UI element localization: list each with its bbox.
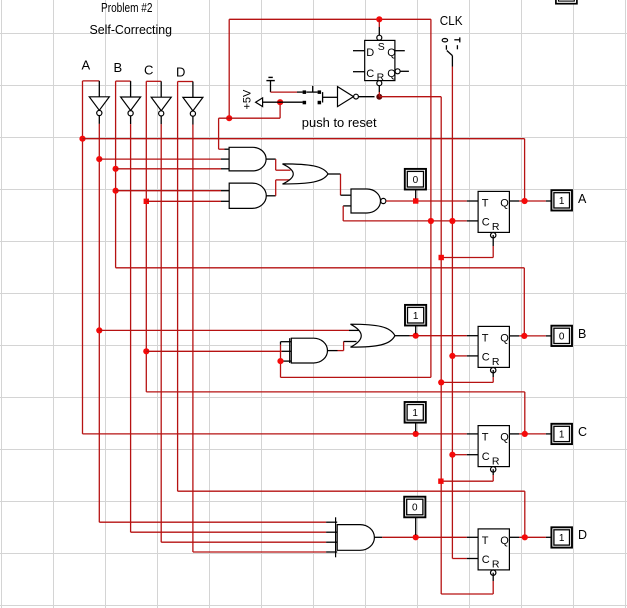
- svg-text:push to reset: push to reset: [302, 115, 377, 130]
- svg-text:+5V: +5V: [242, 89, 254, 110]
- wire FF2 reset link: [441, 381, 493, 383]
- node junction FF4 Q: [522, 534, 528, 540]
- wire AND1 input3 from B: [116, 168, 221, 170]
- pin inverter U_B input stub: [130, 81, 132, 97]
- or-gate OR2: [351, 324, 395, 347]
- pin inverter U_A input stub: [98, 81, 100, 97]
- wire +5V bus left drop: [228, 19, 230, 118]
- svg-text:D: D: [578, 528, 587, 542]
- wire FF1 reset link: [441, 257, 493, 259]
- pin inverter U_D input stub: [192, 82, 194, 98]
- pin FF4 T stub: [467, 536, 478, 538]
- svg-text:T: T: [482, 432, 489, 444]
- wire FF1 Q output: [509, 200, 519, 202]
- pin inverter U_C input stub: [160, 81, 162, 97]
- node reset junction at DFF R: [376, 94, 382, 100]
- wire T_D line: [374, 536, 382, 538]
- node junction Q_A bus tap: [79, 136, 85, 142]
- node junction C to AND2: [144, 199, 149, 204]
- svg-text:A: A: [82, 58, 91, 73]
- node junction T_D probe tap: [413, 534, 419, 540]
- wire T_A line: [386, 200, 467, 202]
- clock switch SW2: [442, 39, 447, 42]
- wire Q_C bus drop to FF3 Q: [524, 392, 526, 434]
- indicator output D value 1: [551, 527, 572, 547]
- wire FF1 R pin: [492, 235, 494, 246]
- pin output indicator D stub: [546, 536, 552, 538]
- pin inverter U_C output stub: [160, 116, 162, 124]
- pin D stub U6: [353, 50, 365, 52]
- inverter U_A (makes not-A): [89, 97, 109, 111]
- svg-text:C: C: [482, 352, 490, 364]
- svg-text:R: R: [492, 559, 500, 571]
- indicator probe (T_B) value 1: [405, 305, 426, 326]
- or-gate OR1: [283, 164, 329, 184]
- svg-text:C: C: [482, 217, 490, 229]
- and-gate AND4: [337, 525, 374, 551]
- wire AND1 input2 from notA: [99, 158, 221, 160]
- wire AND3 input3 stub: [281, 360, 292, 362]
- wire AND4 input1 from notA: [99, 521, 326, 523]
- indicator output B value 0: [551, 326, 572, 346]
- svg-text:Q: Q: [500, 333, 509, 345]
- svg-text:Q: Q: [500, 432, 509, 444]
- indicator probe (T_D) value 0: [404, 497, 425, 518]
- pin Q stub U6: [395, 50, 405, 52]
- wire U5 output (black): [358, 96, 374, 98]
- wire +5V tie bus row B: [281, 376, 431, 378]
- svg-text:T: T: [482, 333, 489, 345]
- wire reset line to right: [379, 96, 441, 98]
- node junction notA to AND1: [96, 156, 102, 162]
- nand-gate NAND1: [351, 189, 381, 213]
- and-gate AND1: [229, 147, 266, 171]
- push button SW1 lever: [306, 91, 317, 93]
- svg-text:Q: Q: [387, 47, 396, 59]
- wire D column top corner: [178, 81, 193, 83]
- wire OR1 output jog: [328, 173, 341, 175]
- svg-text:0: 0: [559, 331, 565, 342]
- wire FF4 R pin: [492, 573, 494, 581]
- wire column D (Q_D net): [177, 82, 179, 492]
- pin Qbar stub U6: [400, 70, 409, 72]
- wire T_B line: [395, 335, 410, 337]
- T flip-flop FF3 (bit C): [478, 426, 509, 467]
- wire column notB: [130, 124, 132, 532]
- node junction T_A probe tap: [413, 198, 418, 203]
- wire column notD: [192, 125, 194, 553]
- wire FF2 Q output: [509, 335, 519, 337]
- wire Q_C feedback bus: [146, 391, 525, 393]
- node junction T_B probe tap: [413, 333, 419, 339]
- node junction at +5V left corner: [226, 115, 232, 121]
- T flip-flop FF4 (bit D): [478, 529, 509, 570]
- and-gate AND2: [229, 183, 266, 208]
- node junction AND3 input3: [277, 358, 283, 364]
- pin C stub U6: [353, 71, 365, 73]
- node junction B to AND2: [113, 188, 119, 194]
- pin output indicator A stub: [546, 200, 552, 202]
- svg-text:Q: Q: [500, 198, 509, 210]
- wire FF3 reset link: [441, 480, 493, 482]
- wire +5V arrow to button (black): [263, 101, 303, 103]
- svg-text:1: 1: [413, 311, 419, 322]
- wire AND3 input1 stub: [281, 341, 292, 343]
- push button SW1 pole: [322, 92, 324, 102]
- pin Qbar bubble U6: [395, 69, 400, 74]
- svg-text:D: D: [366, 47, 374, 59]
- svg-text:CLK: CLK: [440, 13, 463, 28]
- wire Q_B feedback bus: [116, 267, 525, 269]
- wire AND3 tie vertical: [280, 342, 282, 345]
- wire FF2 R pin: [492, 370, 494, 377]
- svg-text:Self-Correcting: Self-Correcting: [90, 22, 173, 37]
- wire +5V bus right drop: [430, 19, 432, 377]
- node junction CLK on C_B: [449, 353, 455, 359]
- svg-text:Problem #2: Problem #2: [101, 0, 153, 15]
- wire AND2 input2 from C: [146, 200, 221, 202]
- D flip-flop U6 body: [365, 40, 395, 80]
- wire B column top corner: [116, 80, 131, 82]
- svg-text:C: C: [482, 451, 490, 463]
- svg-text:R: R: [492, 221, 500, 233]
- svg-text:R: R: [492, 455, 500, 467]
- wire AND4 input4 from notD: [193, 551, 326, 553]
- inverter U5 (reset driver): [338, 87, 354, 107]
- wire C column top corner: [146, 80, 161, 82]
- wire AND3 output jog: [328, 350, 338, 352]
- node junction FF1 Q: [522, 198, 528, 204]
- wire FF4 Q output: [509, 536, 519, 538]
- wire probe stub to T_D: [415, 517, 417, 535]
- wire column C (Q_C net): [145, 81, 147, 392]
- wire C_A clock line: [343, 220, 467, 222]
- node junction on +5V feed: [277, 99, 283, 105]
- node junction FF3 Q: [522, 431, 528, 437]
- svg-text:Q: Q: [500, 535, 509, 547]
- wire C_B clock stub: [452, 355, 466, 357]
- svg-text:R: R: [492, 356, 500, 368]
- inverter U_B (makes not-B): [121, 97, 141, 111]
- node junction reset rail FF3: [438, 479, 443, 484]
- wire OR2 input1 from notA: [99, 329, 349, 331]
- inverter U_C (makes not-C): [151, 97, 171, 111]
- svg-text:C: C: [482, 554, 490, 566]
- ground symbol: [266, 80, 274, 82]
- node junction S pin on +5V bus: [376, 16, 382, 22]
- D flip-flop U6 R bubble: [377, 81, 382, 86]
- node junction FF2 Q: [521, 333, 527, 339]
- pin output indicator B stub: [546, 335, 552, 337]
- svg-text:D: D: [176, 65, 185, 80]
- pin inverter U_B output stub: [130, 116, 132, 124]
- wire AND1 output jog: [266, 158, 276, 160]
- wire AND1 pin1 drop: [218, 118, 220, 149]
- svg-text:1: 1: [559, 430, 565, 441]
- wire probe stub to T_B: [415, 326, 417, 334]
- wire AND3 input2 from C: [146, 350, 282, 352]
- wire NAND1 input2 jog: [343, 205, 351, 207]
- wire T_C line from Q_A: [83, 433, 467, 435]
- node junction T_C probe tap: [413, 431, 419, 437]
- wire AND1 pin1 feed: [219, 148, 225, 150]
- svg-text:1: 1: [559, 196, 565, 207]
- svg-text:0: 0: [413, 175, 419, 186]
- indicator probe (T_C) value 1: [405, 402, 426, 423]
- D flip-flop U6 S bubble: [377, 35, 382, 40]
- node junction CLK on C_C: [449, 452, 455, 458]
- svg-text:T: T: [482, 535, 489, 547]
- svg-text:C: C: [366, 68, 374, 80]
- pin output indicator C stub: [546, 433, 552, 435]
- pin FF2 T stub: [467, 335, 478, 337]
- svg-text:A: A: [578, 192, 587, 206]
- wire column A (Q_A net): [82, 81, 84, 434]
- wire column notC: [160, 124, 162, 542]
- indicator probe (T_A) value 0: [405, 169, 426, 190]
- pin inverter U_D output stub: [192, 116, 194, 124]
- svg-text:C: C: [578, 425, 587, 439]
- wire Q_B bus drop to FF2 Q: [523, 268, 525, 336]
- wire branch up to +5V rail: [279, 102, 281, 118]
- node junction C to AND3: [143, 348, 149, 354]
- wire column B (Q_B net): [115, 81, 117, 268]
- node junction reset rail FF1: [439, 255, 444, 260]
- wire Q_A feedback bus: [83, 138, 525, 140]
- node junction notA to OR2: [96, 327, 102, 333]
- node junction B to AND1: [113, 166, 119, 172]
- svg-text:0: 0: [412, 503, 418, 514]
- wire +5V top bus: [229, 18, 431, 20]
- wire column notA: [98, 124, 100, 522]
- wire probe stub to T_A: [415, 190, 417, 199]
- T flip-flop FF2 (bit B): [478, 326, 509, 367]
- wire AND4 input2 from notB: [131, 531, 327, 533]
- node junction CLK on C_A: [449, 218, 455, 224]
- wire FF3 R pin: [492, 469, 494, 475]
- power +5V arrow symbol: [256, 98, 263, 107]
- wire AND2 output jog: [266, 195, 275, 197]
- pin FF1 T stub: [467, 200, 478, 202]
- inverter U_D (makes not-D): [183, 97, 203, 111]
- svg-text:1: 1: [412, 408, 418, 419]
- pin inverter U_A output stub: [98, 116, 100, 124]
- svg-text:C: C: [144, 63, 153, 78]
- wire Q_D feedback bus: [178, 490, 525, 492]
- nand-gate NAND1 bubble: [381, 198, 386, 203]
- wire S pin: [378, 19, 380, 27]
- node junction +5V drop on C_A: [428, 218, 434, 224]
- wire C_C clock stub: [452, 454, 466, 456]
- pin FF1 C stub: [467, 220, 478, 222]
- wire FF3 Q output: [509, 433, 519, 435]
- svg-text:T: T: [482, 198, 489, 210]
- wire Q_D bus drop to FF4 Q: [524, 491, 526, 537]
- wire FF4 reset link: [441, 593, 493, 595]
- node junction reset rail FF2: [438, 379, 444, 385]
- wire Q_A bus drop to FF1 Q: [524, 139, 526, 201]
- T flip-flop FF1 (bit A): [478, 191, 509, 232]
- wire +5V to button branch: [219, 117, 281, 119]
- wire reset vertical rail: [440, 97, 442, 594]
- wire C_D clock corner: [452, 558, 466, 560]
- wire probe stub to T_C: [415, 423, 417, 432]
- svg-text:B: B: [114, 60, 123, 75]
- svg-text:Q: Q: [387, 68, 396, 80]
- pin FF3 T stub: [467, 433, 478, 435]
- indicator output A value 1: [551, 190, 572, 210]
- svg-text:B: B: [578, 327, 586, 341]
- and-gate AND3: [291, 338, 327, 363]
- indicator output C value 1: [551, 424, 572, 444]
- wire A column top corner: [83, 80, 100, 82]
- wire ground to button: [271, 91, 298, 93]
- wire CLK vertical rail: [451, 67, 453, 559]
- indicator (cut off at top edge): [556, 0, 577, 4]
- push button SW1 contacts: [303, 90, 307, 94]
- wire R pin: [378, 86, 380, 92]
- wire AND4 input3 from notC: [161, 541, 326, 543]
- wire AND2 input1 from B: [116, 190, 221, 192]
- svg-text:S: S: [378, 41, 385, 53]
- pin AND1 input1 stub: [225, 148, 230, 150]
- svg-text:1: 1: [559, 533, 565, 544]
